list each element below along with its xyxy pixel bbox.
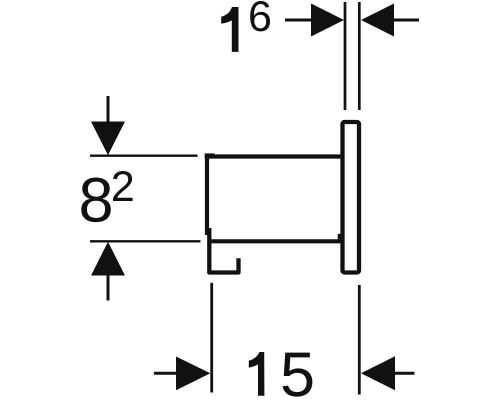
bottom dimension right arrowhead — [361, 356, 395, 390]
bottom dimension left tail line — [154, 372, 178, 375]
top extension line left (flange left face) — [344, 2, 347, 110]
profile bottom nub near flange — [338, 234, 343, 241]
top dimension left arrowhead — [311, 4, 344, 37]
top dimension right arrowhead — [361, 4, 394, 37]
left dimension lower arrowhead (up) — [91, 242, 125, 276]
top dimension right tail line — [392, 19, 419, 22]
bottom extension line right (flange right face) — [358, 285, 361, 395]
profile left edge — [205, 155, 209, 235]
left dimension upper extension line — [90, 155, 198, 157]
profile bottom edge — [210, 239, 342, 243]
dimension text 15 (digit 5) — [283, 353, 313, 397]
wall flange rectangle — [343, 122, 360, 273]
left dimension lower extension line — [90, 240, 201, 242]
bottom dimension right tail line — [393, 372, 415, 375]
dimension text 1.6 (superscript 6) — [250, 1, 270, 31]
dimension text 8.2 (main digit 8) — [81, 178, 111, 223]
left dimension lower tail line — [107, 273, 110, 301]
dimension text 15 (digit 1) — [249, 352, 265, 396]
left dimension upper arrowhead (down) — [91, 122, 125, 156]
hook (J-profile) — [209, 228, 238, 273]
dimension text 1.6 (main digit 1) — [221, 7, 238, 52]
bottom dimension left arrowhead — [176, 357, 210, 391]
dimension text 8.2 (superscript 2) — [113, 171, 133, 201]
profile top-left corner lip — [205, 153, 215, 158]
top extension line right (flange right face) — [358, 2, 361, 110]
bottom extension line left (hook face) — [210, 283, 213, 393]
top dimension left tail line — [285, 19, 313, 22]
left dimension upper tail line — [107, 96, 110, 124]
profile top edge — [207, 154, 342, 158]
